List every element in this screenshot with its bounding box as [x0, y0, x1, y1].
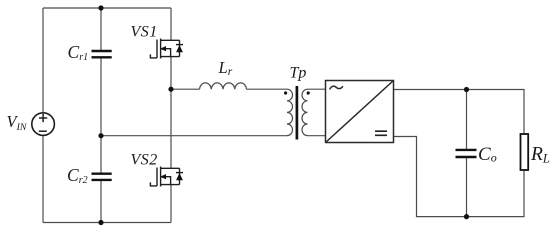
svg-text:Tp: Tp: [290, 65, 307, 82]
svg-text:VIN: VIN: [7, 112, 27, 133]
svg-text:Co: Co: [478, 144, 497, 165]
svg-text:VS2: VS2: [131, 152, 158, 169]
svg-text:Cr2: Cr2: [67, 165, 88, 186]
svg-text:VS1: VS1: [131, 24, 158, 41]
svg-text:Lr: Lr: [218, 58, 233, 78]
svg-text:RL: RL: [530, 144, 550, 165]
svg-text:Cr1: Cr1: [68, 42, 89, 63]
